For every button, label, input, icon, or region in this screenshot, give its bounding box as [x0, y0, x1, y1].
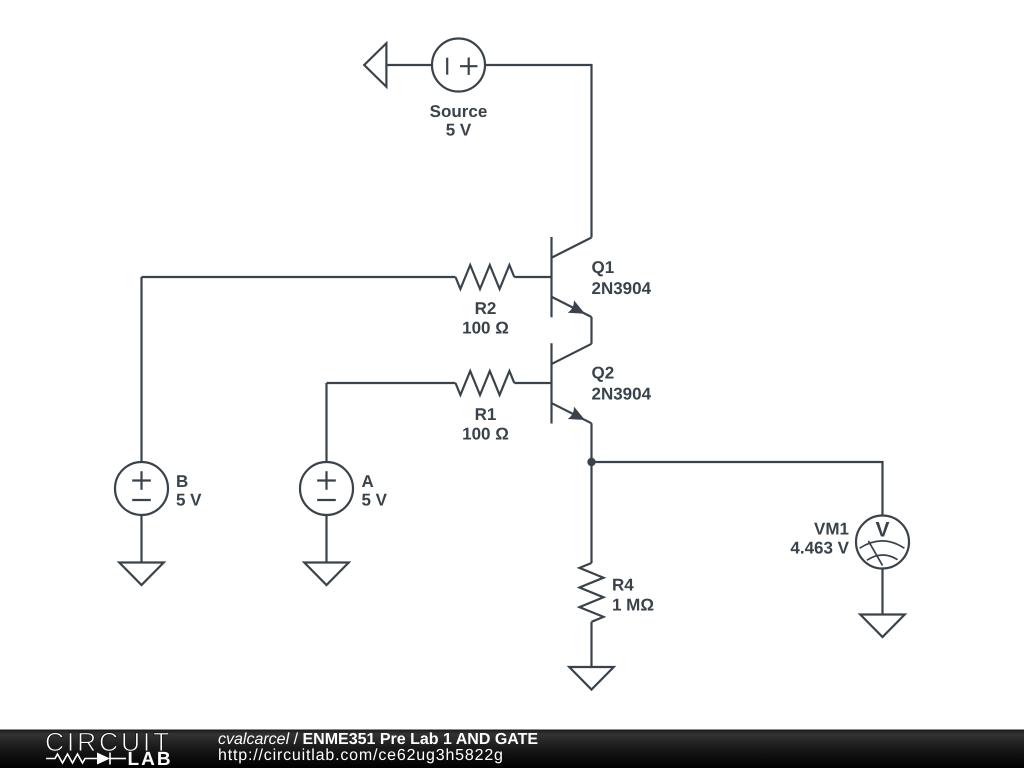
svg-text:LAB: LAB [128, 749, 173, 768]
svg-text:B: B [176, 472, 188, 491]
svg-text:R4: R4 [612, 576, 634, 595]
svg-text:Q2: Q2 [592, 364, 615, 383]
svg-text:R1: R1 [475, 405, 497, 424]
svg-text:100 Ω: 100 Ω [462, 319, 509, 338]
svg-text:2N3904: 2N3904 [592, 385, 652, 404]
svg-text:5 V: 5 V [176, 491, 202, 510]
svg-text:cvalcarcel / ENME351 Pre Lab 1: cvalcarcel / ENME351 Pre Lab 1 AND GATE [218, 731, 538, 748]
svg-text:http://circuitlab.com/ce62ug3h: http://circuitlab.com/ce62ug3h5822g [218, 747, 504, 764]
svg-text:4.463 V: 4.463 V [790, 539, 849, 558]
svg-text:100 Ω: 100 Ω [462, 425, 509, 444]
svg-text:A: A [362, 472, 374, 491]
svg-text:VM1: VM1 [814, 520, 849, 539]
svg-text:5 V: 5 V [362, 491, 388, 510]
svg-text:2N3904: 2N3904 [592, 279, 652, 298]
svg-text:1 MΩ: 1 MΩ [612, 596, 654, 615]
svg-text:5 V: 5 V [446, 121, 472, 140]
svg-text:R2: R2 [475, 299, 497, 318]
svg-text:V: V [875, 519, 889, 542]
svg-text:Q1: Q1 [592, 258, 615, 277]
svg-text:Source: Source [430, 102, 488, 121]
